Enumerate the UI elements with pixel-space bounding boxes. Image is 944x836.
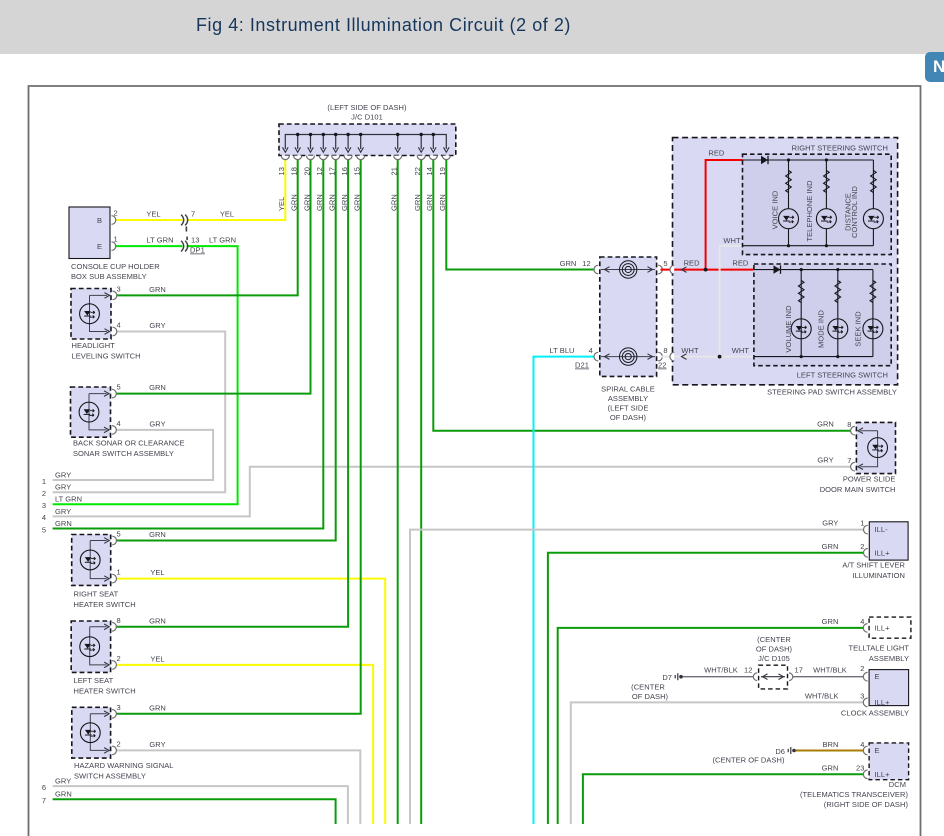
svg-text:GRN: GRN: [302, 194, 311, 211]
svg-text:DCM: DCM: [889, 780, 906, 789]
left steering switch box: [754, 264, 891, 366]
wire GRN D101 pin14 to power slide door switch pin8: [433, 160, 854, 431]
svg-text:18: 18: [290, 167, 299, 175]
right steering branch 3: [872, 160, 874, 246]
svg-text:ILL+: ILL+: [875, 698, 891, 707]
svg-text:TELLTALE LIGHT: TELLTALE LIGHT: [849, 643, 910, 652]
J/C D101 bus drop at x=433.3: [432, 135, 434, 150]
wire GRY left-edge wire 4 to power slide door switch pin7: [53, 467, 854, 517]
J/C D105 sockets: [753, 673, 757, 681]
svg-text:17: 17: [328, 167, 337, 175]
left steering diode: [774, 265, 781, 273]
wire GRN DCM ILL+ pin23 to off-page: [583, 774, 867, 824]
A/T shift pin sockets: [864, 525, 868, 534]
svg-text:(CENTER: (CENTER: [757, 635, 791, 644]
wire YEL D101 pin13 to console cup holder pin2: [187, 160, 286, 220]
wire GRY headlight pin4 to left-edge wire 2: [53, 332, 226, 493]
svg-text:BRN: BRN: [823, 740, 839, 749]
svg-text:E: E: [875, 746, 880, 755]
clock pin sockets: [863, 672, 867, 681]
wire LT GRN connector DP1 to left-edge wire 3: [53, 246, 238, 504]
back sonar switch box: [71, 387, 111, 437]
svg-text:16: 16: [340, 167, 349, 175]
svg-text:5: 5: [117, 530, 121, 539]
svg-text:GRY: GRY: [149, 321, 165, 330]
svg-text:GRN: GRN: [328, 194, 337, 211]
svg-text:3: 3: [42, 501, 46, 510]
hazard warning switch box: [72, 707, 111, 758]
svg-text:LT GRN: LT GRN: [146, 236, 173, 245]
right steering branch 1: [788, 160, 790, 246]
J/C D101 pin arrow+socket at x=285.3: [283, 147, 289, 152]
J/C D101 pin arrow+socket at x=297.7: [295, 147, 301, 152]
svg-text:VOLUME IND: VOLUME IND: [784, 305, 793, 353]
svg-text:DP1: DP1: [190, 246, 205, 255]
svg-text:13: 13: [191, 236, 199, 245]
svg-text:A/T SHIFT LEVER: A/T SHIFT LEVER: [842, 560, 905, 569]
J/C D101 bus drop at x=421.2: [420, 135, 422, 150]
wire GRN D101 pin21 down off-page: [397, 160, 399, 824]
svg-text:SONAR SWITCH ASSEMBLY: SONAR SWITCH ASSEMBLY: [73, 449, 174, 458]
svg-text:4: 4: [589, 346, 593, 355]
power slide lamp: [868, 438, 888, 458]
svg-text:7: 7: [847, 456, 851, 465]
svg-text:ASSEMBLY: ASSEMBLY: [869, 654, 909, 663]
svg-text:2: 2: [117, 739, 121, 748]
svg-text:2: 2: [114, 209, 118, 218]
DCM box: [869, 743, 909, 780]
next (N) button: [925, 52, 944, 82]
svg-text:GRY: GRY: [55, 483, 71, 492]
svg-text:GRN: GRN: [413, 194, 422, 211]
left steering branch x=872.9: [872, 270, 874, 357]
wire GRN telltale light ILL+ to off-page: [558, 628, 867, 824]
right steering bottom rail: [743, 245, 874, 247]
right steering junction dots x=788.5: [787, 158, 790, 161]
svg-text:GRN: GRN: [315, 194, 324, 211]
right steering LED at x=826.4: [816, 209, 836, 229]
spiral cable pin sockets: [594, 265, 598, 274]
svg-text:J/C D101: J/C D101: [351, 113, 383, 122]
svg-text:13: 13: [277, 167, 286, 175]
svg-text:TELEPHONE IND: TELEPHONE IND: [805, 180, 814, 242]
svg-text:GRN: GRN: [822, 542, 839, 551]
svg-text:4: 4: [42, 513, 46, 522]
inline connector DP1 pin 13 on LT GRN wire: [181, 241, 188, 252]
svg-text:ILL-: ILL-: [875, 525, 889, 534]
wire GRN D101 pin20 to back sonar switch pin5: [116, 160, 311, 394]
svg-text:14: 14: [425, 167, 434, 175]
svg-text:GRN: GRN: [822, 617, 839, 626]
svg-text:LEFT SEAT: LEFT SEAT: [74, 676, 114, 685]
svg-text:GRN: GRN: [149, 383, 166, 392]
J/C D101 pin arrow+socket at x=310.5: [308, 147, 314, 152]
svg-text:LT BLU: LT BLU: [549, 346, 574, 355]
svg-text:WHT: WHT: [723, 236, 741, 245]
wire GRY left-edge wire 6 down off-page: [53, 786, 348, 824]
svg-text:3: 3: [117, 285, 121, 294]
svg-text:OF DASH): OF DASH): [632, 692, 669, 701]
left seat heater switch box: [71, 621, 110, 672]
J/C D101 pin arrow+socket at x=421.2: [418, 147, 424, 152]
svg-text:OF DASH): OF DASH): [610, 413, 647, 422]
svg-text:GRY: GRY: [55, 777, 71, 786]
power slide pin sockets: [851, 426, 855, 435]
svg-text:POWER SLIDE: POWER SLIDE: [843, 475, 896, 484]
J/C D101 pin arrow+socket at x=335.7: [333, 147, 339, 152]
right steering LED at x=873.4: [863, 209, 883, 229]
svg-text:4: 4: [860, 617, 864, 626]
right steering junction dots x=826.4: [825, 158, 828, 161]
svg-text:4: 4: [117, 321, 121, 330]
back sonar switch pin sockets: [112, 389, 116, 398]
spiral symbol bottom: [620, 348, 637, 365]
wire WHT right steering switch drop to WHT junction: [720, 246, 743, 357]
J/C D101 internal bus bar: [285, 135, 446, 150]
svg-text:(RIGHT SIDE OF DASH): (RIGHT SIDE OF DASH): [824, 800, 909, 809]
svg-text:SEEK IND: SEEK IND: [853, 311, 862, 347]
wire GRN A/T shift ILL+ to off-page: [548, 553, 867, 824]
svg-text:GRN: GRN: [817, 420, 834, 429]
J/C D105 internal wire with arrows: [761, 676, 785, 678]
wire BRN D6 to DCM E pin4: [794, 750, 867, 752]
svg-text:BACK SONAR OR CLEARANCE: BACK SONAR OR CLEARANCE: [73, 439, 185, 448]
back sonar switch lamp: [79, 402, 99, 422]
svg-text:12: 12: [315, 167, 324, 175]
console pin sockets: [112, 216, 116, 225]
svg-text:YEL: YEL: [277, 197, 286, 211]
svg-text:(CENTER: (CENTER: [631, 683, 665, 692]
svg-text:WHT: WHT: [681, 346, 699, 355]
wire LT BLU spiral cable pin4 down off-page: [534, 357, 596, 824]
left steering LED at x=872.9: [863, 319, 883, 339]
svg-text:(TELEMATICS TRANSCEIVER): (TELEMATICS TRANSCEIVER): [800, 790, 908, 799]
steering pad switch assembly outer box: [673, 138, 898, 385]
wire YEL right seat heater pin1 down off-page: [116, 579, 385, 824]
svg-text:19: 19: [438, 167, 447, 175]
svg-text:SWITCH ASSEMBLY: SWITCH ASSEMBLY: [74, 772, 146, 781]
svg-text:(LEFT SIDE: (LEFT SIDE: [608, 404, 649, 413]
left steering junction dots x=801.2: [800, 268, 803, 271]
svg-text:GRN: GRN: [560, 259, 577, 268]
svg-text:J/C D105: J/C D105: [758, 654, 790, 663]
spiral cable assembly box: [600, 257, 657, 376]
svg-text:GRN: GRN: [290, 194, 299, 211]
J/C D101 pin arrow+socket at x=360.7: [358, 147, 364, 152]
right steering diode: [761, 156, 768, 164]
wire YEL left seat heater pin2 down off-page: [116, 665, 373, 824]
svg-text:21: 21: [390, 167, 399, 175]
right seat heater switch box: [72, 535, 111, 586]
svg-text:WHT/BLK: WHT/BLK: [813, 666, 847, 675]
svg-text:GRY: GRY: [55, 470, 71, 479]
svg-text:15: 15: [353, 167, 362, 175]
svg-text:6: 6: [42, 783, 46, 792]
title: [196, 15, 571, 36]
svg-text:WHT/BLK: WHT/BLK: [704, 666, 738, 675]
inline connector DP1 body bar: [185, 227, 188, 241]
wire GRN left-edge wire 7 down off-page: [53, 799, 336, 824]
svg-text:GRY: GRY: [817, 456, 833, 465]
svg-text:12: 12: [744, 666, 752, 675]
svg-text:5: 5: [117, 383, 121, 392]
svg-text:8: 8: [117, 616, 121, 625]
svg-text:1: 1: [114, 235, 118, 244]
svg-text:GRN: GRN: [822, 764, 839, 773]
J/C D101 pin arrow+socket at x=348.1: [345, 147, 351, 152]
svg-text:GRN: GRN: [438, 194, 447, 211]
svg-text:MODE IND: MODE IND: [817, 310, 826, 348]
J/C D101 pin arrow+socket at x=397.7: [395, 147, 401, 152]
wire LT GRN console pin1 to inline connector 13: [116, 245, 183, 247]
svg-text:1: 1: [42, 477, 46, 486]
left seat heater switch lamp: [80, 637, 100, 657]
svg-text:ILL+: ILL+: [875, 623, 891, 632]
svg-text:CONTROL IND: CONTROL IND: [850, 186, 859, 238]
svg-text:2: 2: [860, 664, 864, 673]
wire GRN D101 pin15 to hazard switch pin3: [116, 160, 361, 714]
svg-text:HEADLIGHT: HEADLIGHT: [72, 341, 116, 350]
svg-text:D21: D21: [575, 361, 589, 370]
right seat heater switch internal wiring: [90, 541, 107, 579]
svg-text:LEVELING SWITCH: LEVELING SWITCH: [72, 352, 141, 361]
right seat heater switch lamp: [80, 550, 100, 570]
svg-text:4: 4: [117, 419, 121, 428]
svg-text:OF DASH): OF DASH): [756, 645, 793, 654]
svg-text:YEL: YEL: [150, 654, 164, 663]
svg-text:DOOR MAIN SWITCH: DOOR MAIN SWITCH: [820, 485, 896, 494]
spiral cable bottom wire internal: [601, 356, 655, 358]
svg-text:RIGHT STEERING SWITCH: RIGHT STEERING SWITCH: [792, 144, 888, 153]
junction connector J/C D105 box: [759, 665, 788, 689]
J/C D101 bus drop at x=335.7: [335, 135, 337, 150]
left steering LED at x=801.2: [791, 319, 811, 339]
svg-text:E: E: [97, 242, 102, 251]
console cup holder box sub assembly box: [69, 207, 110, 259]
wire GRN D101 pin16 to left seat heater pin8: [116, 160, 348, 627]
wire WHT/BLK clock ILL+ to off-page: [571, 702, 867, 824]
svg-text:(LEFT SIDE OF DASH): (LEFT SIDE OF DASH): [327, 103, 407, 112]
svg-text:LT GRN: LT GRN: [209, 236, 236, 245]
telltale light assembly box: [869, 617, 911, 638]
wire YEL console pin2 to inline connector 7: [116, 219, 183, 221]
svg-text:5: 5: [42, 525, 46, 534]
junction connector J/C D101 box: [279, 124, 456, 156]
svg-text:8: 8: [847, 420, 851, 429]
svg-text:YEL: YEL: [146, 210, 160, 219]
right steering LED at x=788.5: [779, 209, 799, 229]
svg-text:HAZARD WARNING SIGNAL: HAZARD WARNING SIGNAL: [74, 761, 174, 770]
svg-text:GRN: GRN: [55, 519, 72, 528]
spiral cable top wire internal: [601, 269, 655, 271]
junction dot on RED wire: [704, 268, 708, 272]
svg-text:1: 1: [117, 568, 121, 577]
svg-text:ASSEMBLY: ASSEMBLY: [608, 394, 648, 403]
svg-text:1: 1: [860, 519, 864, 528]
svg-text:YEL: YEL: [150, 568, 164, 577]
power slide door main switch box: [856, 422, 895, 473]
svg-text:GRN: GRN: [149, 616, 166, 625]
svg-text:2: 2: [860, 542, 864, 551]
power slide internal wiring: [860, 431, 877, 467]
wire WHT/BLK D7 to J/C D105 pin12: [681, 676, 756, 678]
right steering switch box: [743, 154, 892, 254]
svg-text:8: 8: [663, 346, 667, 355]
J/C D101 bus drop at x=348.1: [347, 135, 349, 150]
svg-text:5: 5: [663, 259, 667, 268]
wire RED spiral cable pin5 to left steering switch: [661, 269, 754, 271]
steering pad pin sockets on left edge: [670, 265, 674, 274]
left steering bottom rail: [754, 356, 873, 358]
wire GRN D101 pin17 to right seat heater pin5: [116, 160, 336, 541]
svg-text:GRN: GRN: [340, 194, 349, 211]
left seat heater switch internal wiring: [90, 627, 107, 665]
svg-text:17: 17: [795, 666, 803, 675]
svg-text:VOICE IND: VOICE IND: [771, 190, 780, 229]
left steering LED at x=837.8: [828, 319, 848, 339]
right seat heater switch pin sockets: [112, 536, 116, 545]
wire GRN D101 pin18 to headlight leveling switch pin3: [116, 160, 298, 295]
svg-text:YEL: YEL: [220, 210, 234, 219]
clock assembly box: [869, 670, 909, 706]
svg-text:GRN: GRN: [149, 285, 166, 294]
svg-text:RED: RED: [684, 258, 701, 267]
svg-text:GRY: GRY: [55, 507, 71, 516]
svg-text:GRY: GRY: [822, 519, 838, 528]
svg-text:BOX SUB ASSEMBLY: BOX SUB ASSEMBLY: [71, 272, 147, 281]
svg-text:23: 23: [856, 764, 864, 773]
wire RED branch up to right steering switch: [706, 160, 743, 270]
svg-text:GRN: GRN: [425, 194, 434, 211]
left steering branch x=837.8: [837, 270, 839, 357]
header bar: [0, 0, 944, 54]
svg-text:12: 12: [582, 259, 590, 268]
svg-text:LEFT STEERING SWITCH: LEFT STEERING SWITCH: [797, 371, 888, 380]
J/C D101 bus drop at x=360.7: [360, 135, 362, 150]
svg-text:GRN: GRN: [390, 194, 399, 211]
wire GRY A/T shift ILL- to off-page: [410, 530, 867, 824]
headlight leveling switch lamp: [80, 304, 100, 324]
svg-text:GRN: GRN: [149, 530, 166, 539]
wire WHT/BLK J/C D105 pin17 to clock assembly E pin2: [791, 676, 867, 678]
A/T shift lever illumination box: [869, 522, 908, 560]
svg-text:STEERING PAD SWITCH ASSEMBLY: STEERING PAD SWITCH ASSEMBLY: [767, 387, 897, 396]
svg-text:CLOCK ASSEMBLY: CLOCK ASSEMBLY: [841, 708, 909, 717]
svg-text:2: 2: [42, 489, 46, 498]
svg-text:WHT: WHT: [732, 346, 750, 355]
junction dot on WHT wire: [718, 355, 722, 359]
headlight leveling switch box: [71, 289, 111, 340]
right steering branch 2: [825, 160, 827, 246]
svg-text:GRN: GRN: [55, 790, 72, 799]
svg-text:ILL+: ILL+: [875, 548, 891, 557]
svg-text:RED: RED: [708, 148, 725, 157]
svg-text:D7: D7: [662, 673, 672, 682]
left steering top rail: [754, 269, 873, 271]
svg-text:LT GRN: LT GRN: [55, 495, 82, 504]
hazard warning switch pin sockets: [112, 710, 116, 719]
headlight leveling switch pin sockets: [113, 291, 117, 300]
DCM pin sockets: [863, 746, 867, 755]
svg-text:WHT/BLK: WHT/BLK: [805, 692, 839, 701]
svg-text:(CENTER OF DASH): (CENTER OF DASH): [712, 756, 785, 765]
svg-text:HEATER SWITCH: HEATER SWITCH: [74, 600, 136, 609]
svg-text:2: 2: [117, 654, 121, 663]
wire WHT spiral cable pin8 to left steering switch: [661, 356, 754, 358]
J/C D101 bus drop at x=297.7: [297, 135, 299, 150]
svg-text:GRN: GRN: [149, 703, 166, 712]
svg-text:7: 7: [42, 796, 46, 805]
svg-text:GRN: GRN: [353, 194, 362, 211]
J/C D101 bus drop at x=397.7: [397, 135, 399, 150]
svg-text:B: B: [97, 216, 102, 225]
hazard warning switch lamp: [80, 723, 100, 743]
svg-text:GRY: GRY: [149, 740, 165, 749]
spiral symbol top: [620, 261, 637, 278]
connector D6 symbol: [788, 747, 791, 754]
svg-text:ILL+: ILL+: [875, 770, 891, 779]
svg-text:SPIRAL CABLE: SPIRAL CABLE: [601, 385, 655, 394]
svg-text:CONSOLE CUP HOLDER: CONSOLE CUP HOLDER: [71, 262, 160, 271]
J/C D101 bus drop at x=310.5: [310, 135, 312, 150]
svg-text:ILLUMINATION: ILLUMINATION: [852, 571, 905, 580]
svg-text:7: 7: [191, 210, 195, 219]
svg-text:20: 20: [302, 167, 311, 175]
inline connector DP1 pin 7 on YEL wire: [181, 215, 188, 226]
svg-text:22: 22: [658, 361, 667, 370]
J/C D101 pin arrow+socket at x=323.3: [321, 147, 327, 152]
right steering top rail: [743, 159, 874, 161]
left seat heater switch pin sockets: [112, 623, 116, 632]
J/C D101 pin arrow+socket at x=446.3: [444, 147, 450, 152]
wire GRN D101 pin22 down off-page: [420, 160, 422, 824]
svg-text:3: 3: [860, 692, 864, 701]
svg-text:22: 22: [413, 167, 422, 175]
svg-text:RED: RED: [732, 258, 749, 267]
hazard warning switch internal wiring: [90, 714, 106, 751]
J/C D101 bus drop at x=323.3: [322, 135, 324, 150]
back sonar switch internal wiring: [89, 394, 107, 430]
left steering junction dots x=837.8: [836, 268, 839, 271]
svg-text:GRY: GRY: [149, 419, 165, 428]
headlight leveling switch internal wiring: [90, 295, 108, 331]
svg-text:E: E: [875, 672, 880, 681]
J/C D101 pin arrow+socket at x=433.3: [431, 147, 437, 152]
svg-text:3: 3: [117, 703, 121, 712]
wire GRN D101 pin19 to spiral cable pin12: [446, 160, 595, 270]
left steering branch x=801.2: [800, 270, 802, 357]
telltale pin socket: [863, 624, 867, 633]
wire GRY hazard switch pin2 down off-page: [116, 750, 360, 824]
wire GRN left-edge wire 5 to D101 pin12: [53, 160, 324, 529]
svg-text:HEATER SWITCH: HEATER SWITCH: [74, 687, 136, 696]
svg-text:RIGHT SEAT: RIGHT SEAT: [74, 590, 119, 599]
connector D7 symbol: [675, 673, 678, 680]
wire GRY back sonar pin4 to left-edge wire 1: [53, 430, 214, 480]
